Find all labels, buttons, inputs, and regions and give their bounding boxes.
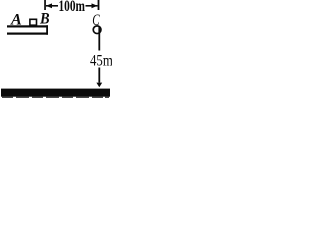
background (0, 0, 112, 98)
block on table (small square) (30, 19, 37, 25)
svg-text:A: A (10, 12, 22, 29)
dimension line right segment (86, 5, 98, 7)
dimension right tick (98, 0, 100, 10)
drop line upper segment (98, 27, 100, 51)
svg-text:100m: 100m (59, 0, 86, 15)
svg-text:B: B (39, 11, 50, 28)
table bottom line (7, 33, 48, 35)
dimension left arrowhead (46, 3, 52, 8)
ball at C (93, 26, 101, 34)
svg-text:45m: 45m (90, 52, 112, 69)
dimension left tick (44, 0, 46, 10)
down arrowhead (96, 83, 102, 88)
dimension right arrowhead (92, 3, 98, 8)
ground bar (1, 89, 110, 97)
ground hatch dashes (2, 97, 109, 98)
table top surface line (7, 25, 48, 27)
table right edge (46, 25, 48, 34)
dimension line left segment (46, 5, 58, 7)
drop line lower segment (98, 68, 100, 83)
